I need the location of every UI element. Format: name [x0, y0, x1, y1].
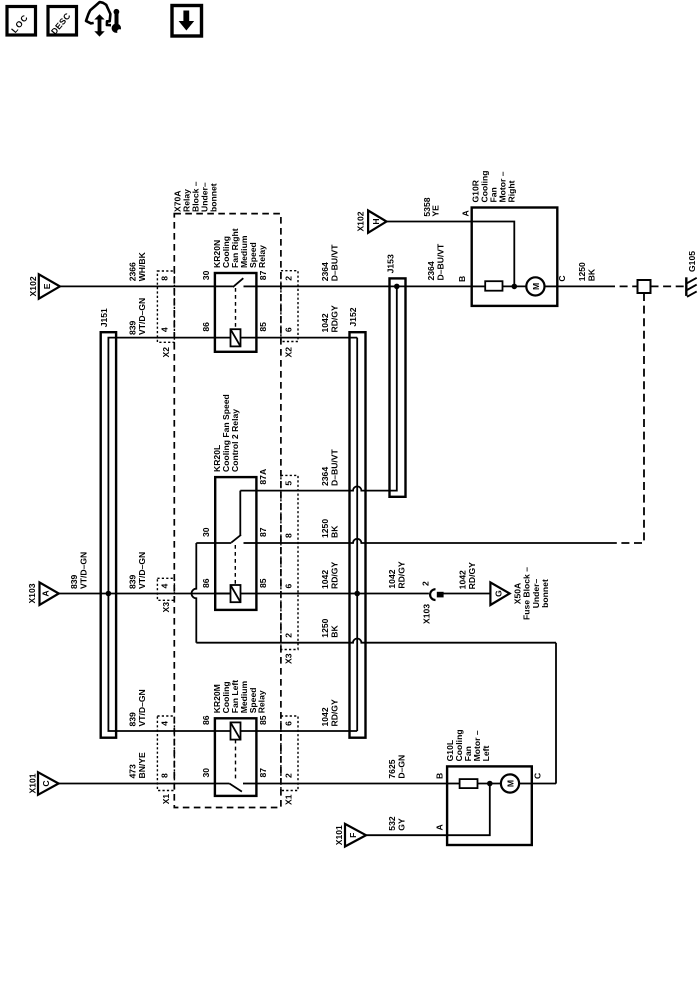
connector X3 label left [161, 602, 171, 613]
fuse block X50A label [513, 567, 551, 620]
svg-text:A: A [460, 210, 470, 216]
wire 1042 RD/GY KR20L 85 to inline X103 [256, 561, 429, 593]
wire KR20N 87 to J153 (2364 D-BU/VT) [256, 243, 471, 286]
svg-text:4: 4 [160, 721, 170, 726]
connector pins 2/6 (X2) dashed box right [281, 271, 298, 342]
svg-text:GY: GY [397, 818, 407, 831]
svg-text:BK: BK [587, 268, 597, 281]
relay KR20M switch contact [229, 784, 256, 792]
connector X101 pin C (triangle) [27, 772, 58, 795]
connector X101 pin F (triangle) [334, 824, 366, 847]
svg-text:J152: J152 [348, 307, 358, 326]
connector pins 4/8 (X1) dashed box left of KR20M [157, 716, 174, 791]
svg-text:1042: 1042 [320, 313, 330, 332]
icon down-arrow box [172, 6, 202, 37]
connector X102 pin H (triangle) [356, 211, 387, 233]
svg-text:86: 86 [201, 322, 211, 332]
connector X103 pin A (triangle) [27, 582, 59, 605]
svg-text:VT/D–GN: VT/D–GN [137, 689, 147, 726]
svg-text:Control 2 Relay: Control 2 Relay [230, 409, 240, 472]
svg-text:X2: X2 [284, 347, 294, 358]
splice pack J153 [386, 254, 406, 497]
svg-text:G: G [493, 590, 503, 597]
connector X2 label right [284, 347, 294, 358]
svg-text:1250: 1250 [320, 618, 330, 637]
relay block X70A label [172, 181, 218, 212]
connector X102 pin E (triangle) [28, 274, 60, 298]
svg-text:87: 87 [258, 527, 268, 537]
svg-text:1250: 1250 [577, 262, 587, 281]
icon vehicle outline with up-down arrow and wrench [86, 2, 122, 37]
svg-text:1250: 1250 [320, 519, 330, 538]
svg-text:D–BU/VT: D–BU/VT [330, 244, 340, 282]
relay KR20M coil [231, 722, 358, 781]
motor G10L internal A branch [447, 781, 493, 836]
svg-text:532: 532 [387, 816, 397, 831]
svg-text:Right: Right [507, 180, 517, 202]
svg-text:2366: 2366 [128, 262, 138, 281]
svg-text:WH/BK: WH/BK [137, 251, 147, 281]
svg-text:J151: J151 [99, 308, 109, 327]
svg-text:6: 6 [283, 721, 293, 726]
splice pack J152 [348, 307, 366, 737]
relay KR20M box [215, 718, 257, 796]
wire 1250 BK KR20L 87 to dashed splice branch [256, 519, 610, 543]
svg-text:M: M [505, 780, 515, 787]
svg-text:BK: BK [330, 624, 340, 637]
svg-text:85: 85 [258, 322, 268, 332]
motor G10L label [445, 729, 491, 761]
wire KR20L 30 branch down to row F [192, 543, 216, 643]
wire 839 VT/D-GN from X103-A to KR20L pin 86 [59, 552, 231, 594]
relay block X70A dashed border [174, 214, 281, 808]
svg-text:30: 30 [201, 270, 211, 280]
svg-text:30: 30 [201, 527, 211, 537]
svg-text:30: 30 [201, 768, 211, 778]
ground G105 symbol [686, 251, 697, 297]
splice square node [638, 280, 651, 293]
svg-text:87A: 87A [258, 469, 268, 485]
relay KR20L coil [215, 585, 256, 602]
relay KR20L label [212, 394, 240, 472]
svg-text:1042: 1042 [458, 570, 468, 589]
svg-text:2: 2 [420, 581, 430, 586]
wire 1042 RD/GY KR20N pin 85 to J152 [241, 305, 358, 338]
motor G10R label [471, 171, 517, 203]
relay KR20N switch contact [233, 278, 257, 329]
svg-text:J153: J153 [386, 254, 396, 273]
svg-text:2: 2 [283, 633, 293, 638]
svg-text:X1: X1 [161, 794, 171, 805]
svg-text:M: M [531, 283, 541, 290]
svg-text:2: 2 [283, 276, 293, 281]
svg-text:X102: X102 [28, 276, 38, 296]
icon LOC box [7, 7, 36, 36]
svg-text:H: H [371, 218, 381, 224]
wire 1250 BK G10R pin C to splice (solid then dashed) [557, 285, 637, 287]
wire 2364 D-BU/VT KR20L 87A to J153 [240, 448, 389, 490]
svg-text:RD/GY: RD/GY [397, 561, 407, 588]
svg-text:5: 5 [283, 481, 293, 486]
svg-text:bonnet: bonnet [540, 579, 550, 608]
svg-text:86: 86 [201, 578, 211, 588]
connector pin 8 (X2) dashed box [157, 271, 174, 342]
svg-text:X103: X103 [421, 604, 431, 624]
svg-text:6: 6 [283, 584, 293, 589]
wire 1042 RD/GY KR20M 85 to J152 label [320, 699, 340, 726]
fuse block X50A pin G (triangle) [490, 582, 509, 605]
svg-text:Left: Left [481, 746, 491, 762]
wire 2366 WH/BK from X102-E to KR20N pin 30 [60, 251, 233, 286]
svg-text:VT/D–GN: VT/D–GN [79, 552, 89, 589]
svg-text:4: 4 [160, 327, 170, 332]
svg-text:X102: X102 [356, 211, 366, 231]
motor G10R box [472, 208, 558, 306]
wire 5358 YE from X102-H to G10R pin A [387, 197, 472, 221]
svg-text:839: 839 [128, 320, 138, 335]
svg-text:86: 86 [201, 715, 211, 725]
connector X2 label left [161, 347, 171, 358]
svg-text:2364: 2364 [426, 261, 436, 280]
wire 1042 RD/GY inline X103 to X50A [443, 562, 490, 594]
wire 532 GY X101-F to G10L pin A [366, 816, 447, 835]
motor G10R internal A branch [472, 222, 517, 290]
svg-text:4: 4 [160, 584, 170, 589]
svg-text:X3: X3 [284, 653, 294, 664]
svg-text:C: C [41, 780, 51, 786]
svg-text:RD/GY: RD/GY [330, 699, 340, 726]
svg-text:839: 839 [128, 712, 138, 727]
wire 839 VT/D-GN J151 to KR20M pin 86 [116, 689, 230, 731]
svg-text:8: 8 [283, 533, 293, 538]
relay KR20N coil [231, 329, 241, 346]
svg-text:1042: 1042 [320, 707, 330, 726]
relay KR20N box [215, 273, 257, 352]
svg-text:X1: X1 [284, 794, 294, 805]
dashed wire splice down to row D (1250 BK) [610, 293, 644, 543]
pin 4 label (X2) [160, 327, 170, 332]
svg-text:2: 2 [283, 773, 293, 778]
svg-text:D–BU/VT: D–BU/VT [435, 243, 445, 281]
svg-text:Relay: Relay [257, 690, 267, 713]
relay KR20L 87A contact bar [239, 491, 241, 536]
svg-text:B: B [457, 276, 467, 282]
wire 7625 D-GN KR20M 87 to G10L pin B [256, 755, 447, 784]
connector pins 6/2 (X1) dashed box right of KR20M [281, 716, 298, 791]
svg-text:YE: YE [430, 205, 440, 217]
svg-text:6: 6 [283, 327, 293, 332]
connector X3 label right [284, 653, 294, 664]
motor G10R motor symbol M [526, 277, 557, 295]
svg-text:VT/D–GN: VT/D–GN [137, 298, 147, 335]
svg-text:Relay: Relay [257, 245, 267, 268]
svg-text:2364: 2364 [320, 262, 330, 281]
svg-text:RD/GY: RD/GY [330, 562, 340, 589]
svg-text:BK: BK [330, 525, 340, 538]
connector X1 label left [161, 794, 171, 805]
svg-text:VT/D–GN: VT/D–GN [137, 552, 147, 589]
svg-text:1042: 1042 [320, 570, 330, 589]
svg-text:RD/GY: RD/GY [467, 562, 477, 589]
inline connector X103 pin 2 [420, 581, 443, 624]
connector X1 label right [284, 794, 294, 805]
svg-text:8: 8 [160, 773, 170, 778]
svg-text:A: A [41, 590, 51, 596]
svg-text:B: B [435, 773, 445, 779]
relay KR20L switch contact [215, 535, 256, 586]
svg-text:X3: X3 [161, 602, 171, 613]
wire G10L pin C to row F branch [532, 783, 556, 785]
svg-text:X2: X2 [161, 347, 171, 358]
svg-text:8: 8 [160, 276, 170, 281]
svg-text:F: F [348, 833, 358, 838]
relay KR20L box [215, 477, 256, 610]
svg-text:D–BU/VT: D–BU/VT [330, 448, 340, 486]
svg-text:X101: X101 [334, 825, 344, 845]
svg-text:X103: X103 [27, 583, 37, 603]
svg-text:85: 85 [258, 578, 268, 588]
svg-text:C: C [533, 773, 543, 779]
svg-text:2364: 2364 [320, 467, 330, 486]
svg-text:RD/GY: RD/GY [330, 305, 340, 332]
svg-text:839: 839 [128, 574, 138, 589]
svg-text:BN/YE: BN/YE [137, 752, 147, 779]
motor G10L box [447, 766, 532, 845]
svg-text:87: 87 [258, 270, 268, 280]
relay KR20M label [212, 680, 267, 714]
svg-text:G105: G105 [687, 251, 697, 272]
svg-text:473: 473 [128, 764, 138, 779]
motor G10L motor symbol M [501, 774, 532, 792]
wire label 1250 BK (row A right) [577, 262, 597, 281]
svg-text:C: C [557, 275, 567, 281]
svg-text:839: 839 [69, 574, 79, 589]
wire 839 VT/D-GN J151 to KR20N pin 86 [116, 298, 230, 338]
motor G10L internal resistor [447, 779, 501, 788]
svg-text:bonnet: bonnet [208, 183, 218, 212]
wire 473 BN/YE X101-C to KR20M pin 30 [59, 752, 230, 784]
connector pin 4 (X3) dashed box [157, 578, 174, 600]
wire 1250 BK row F to G10L pin C branch [196, 618, 556, 783]
splice pack J151 [99, 308, 116, 738]
svg-text:87: 87 [258, 768, 268, 778]
svg-text:X101: X101 [27, 773, 37, 793]
connector pins 5/8/6/2 (X3) dashed box right of KR20L [281, 475, 298, 649]
motor G10R internal resistor [472, 281, 526, 291]
svg-text:7625: 7625 [387, 759, 397, 778]
relay KR20N label [212, 228, 267, 268]
svg-text:85: 85 [258, 715, 268, 725]
svg-text:E: E [42, 283, 52, 289]
svg-text:1042: 1042 [387, 569, 397, 588]
svg-text:A: A [435, 824, 445, 830]
svg-text:D–GN: D–GN [397, 755, 407, 779]
icon DESC box [48, 7, 77, 37]
dashed wire splice to ground G105 [651, 285, 686, 287]
